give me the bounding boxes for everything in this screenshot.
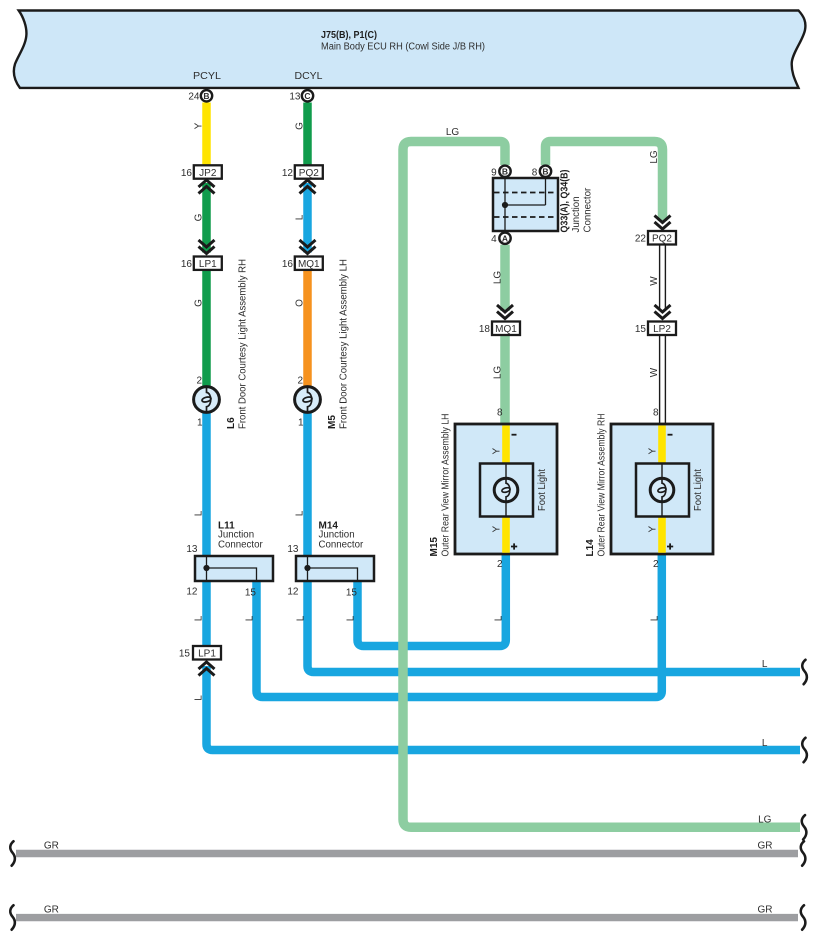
svg-text:M5: M5 (327, 415, 338, 429)
svg-text:Junction: Junction (571, 196, 582, 232)
svg-text:LP1: LP1 (198, 649, 216, 660)
svg-text:LG: LG (493, 366, 504, 380)
svg-text:Connector: Connector (218, 540, 263, 551)
svg-text:13: 13 (287, 544, 299, 555)
svg-text:L: L (296, 615, 307, 621)
svg-text:JP2: JP2 (199, 168, 217, 179)
svg-text:2: 2 (196, 376, 202, 387)
svg-text:1: 1 (197, 418, 203, 429)
svg-text:LG: LG (493, 271, 504, 285)
svg-text:Foot Light: Foot Light (537, 469, 548, 511)
svg-text:GR: GR (44, 905, 59, 916)
svg-text:Y: Y (648, 526, 659, 533)
svg-text:16: 16 (181, 168, 193, 179)
svg-text:LG: LG (446, 127, 460, 138)
svg-text:LG: LG (758, 815, 772, 826)
svg-text:L: L (346, 615, 357, 621)
svg-text:16: 16 (181, 259, 193, 270)
svg-text:22: 22 (635, 234, 647, 245)
svg-text:W: W (649, 276, 660, 286)
svg-text:L14: L14 (585, 539, 596, 557)
svg-text:12: 12 (282, 168, 294, 179)
svg-text:12: 12 (287, 587, 299, 598)
svg-text:Outer Rear View Mirror Assembl: Outer Rear View Mirror Assembly LH (441, 414, 452, 557)
svg-text:PQ2: PQ2 (299, 168, 319, 179)
svg-text:L: L (245, 615, 256, 621)
svg-text:Foot Light: Foot Light (693, 469, 704, 511)
svg-text:J75(B), P1(C): J75(B), P1(C) (321, 30, 377, 41)
svg-text:9: 9 (491, 167, 497, 178)
svg-text:G: G (295, 122, 306, 130)
svg-text:8: 8 (497, 408, 503, 419)
svg-text:Front Door Courtesy Light Asse: Front Door Courtesy Light Assembly LH (338, 259, 349, 429)
svg-text:24: 24 (188, 92, 200, 103)
svg-text:M15: M15 (429, 537, 440, 557)
svg-text:O: O (295, 299, 306, 307)
svg-text:MQ1: MQ1 (298, 259, 320, 270)
svg-text:2: 2 (297, 376, 303, 387)
svg-text:Connector: Connector (582, 187, 593, 232)
svg-text:Y: Y (194, 122, 205, 129)
svg-text:15: 15 (346, 588, 358, 599)
svg-text:15: 15 (179, 649, 191, 660)
svg-text:16: 16 (282, 259, 294, 270)
svg-text:G: G (194, 213, 205, 221)
svg-text:L: L (650, 615, 661, 621)
svg-text:L: L (494, 615, 505, 621)
svg-text:B: B (502, 166, 508, 176)
svg-text:1: 1 (298, 418, 304, 429)
svg-text:C: C (304, 91, 310, 101)
svg-text:Connector: Connector (319, 540, 364, 551)
svg-text:Front Door Courtesy Light Asse: Front Door Courtesy Light Assembly RH (237, 259, 248, 429)
svg-text:18: 18 (479, 324, 491, 335)
svg-text:L: L (194, 615, 205, 621)
svg-text:4: 4 (491, 234, 497, 245)
svg-text:2: 2 (497, 559, 503, 570)
svg-text:13: 13 (186, 544, 198, 555)
svg-text:2: 2 (653, 559, 659, 570)
svg-text:L: L (762, 738, 768, 749)
svg-text:L: L (295, 214, 306, 220)
svg-text:Y: Y (492, 448, 503, 455)
svg-text:Main Body ECU RH (Cowl Side J/: Main Body ECU RH (Cowl Side J/B RH) (321, 42, 485, 53)
svg-text:L: L (194, 510, 205, 516)
svg-text:PQ2: PQ2 (652, 234, 672, 245)
svg-text:B: B (203, 91, 209, 101)
svg-text:G: G (194, 299, 205, 307)
svg-text:GR: GR (44, 841, 59, 852)
svg-text:MQ1: MQ1 (495, 324, 517, 335)
svg-text:GR: GR (758, 841, 773, 852)
svg-text:GR: GR (758, 905, 773, 916)
svg-text:Y: Y (648, 448, 659, 455)
svg-text:LP1: LP1 (199, 259, 217, 270)
svg-text:DCYL: DCYL (295, 71, 323, 82)
svg-text:W: W (649, 367, 660, 377)
svg-text:LG: LG (649, 150, 660, 164)
svg-text:A: A (502, 233, 508, 243)
svg-text:8: 8 (653, 408, 659, 419)
svg-text:LP2: LP2 (653, 324, 671, 335)
svg-text:15: 15 (245, 588, 257, 599)
svg-text:PCYL: PCYL (193, 71, 221, 82)
svg-text:L: L (194, 695, 205, 701)
svg-text:Q33(A), Q34(B): Q33(A), Q34(B) (559, 170, 570, 233)
svg-text:12: 12 (186, 587, 198, 598)
svg-text:13: 13 (289, 92, 301, 103)
svg-text:Y: Y (492, 526, 503, 533)
svg-text:15: 15 (635, 324, 647, 335)
svg-text:Outer Rear View Mirror Assembl: Outer Rear View Mirror Assembly RH (597, 414, 608, 557)
svg-text:L: L (762, 659, 768, 670)
svg-text:8: 8 (532, 167, 538, 178)
svg-text:L: L (295, 510, 306, 516)
svg-text:B: B (542, 166, 548, 176)
svg-text:L6: L6 (226, 417, 237, 429)
